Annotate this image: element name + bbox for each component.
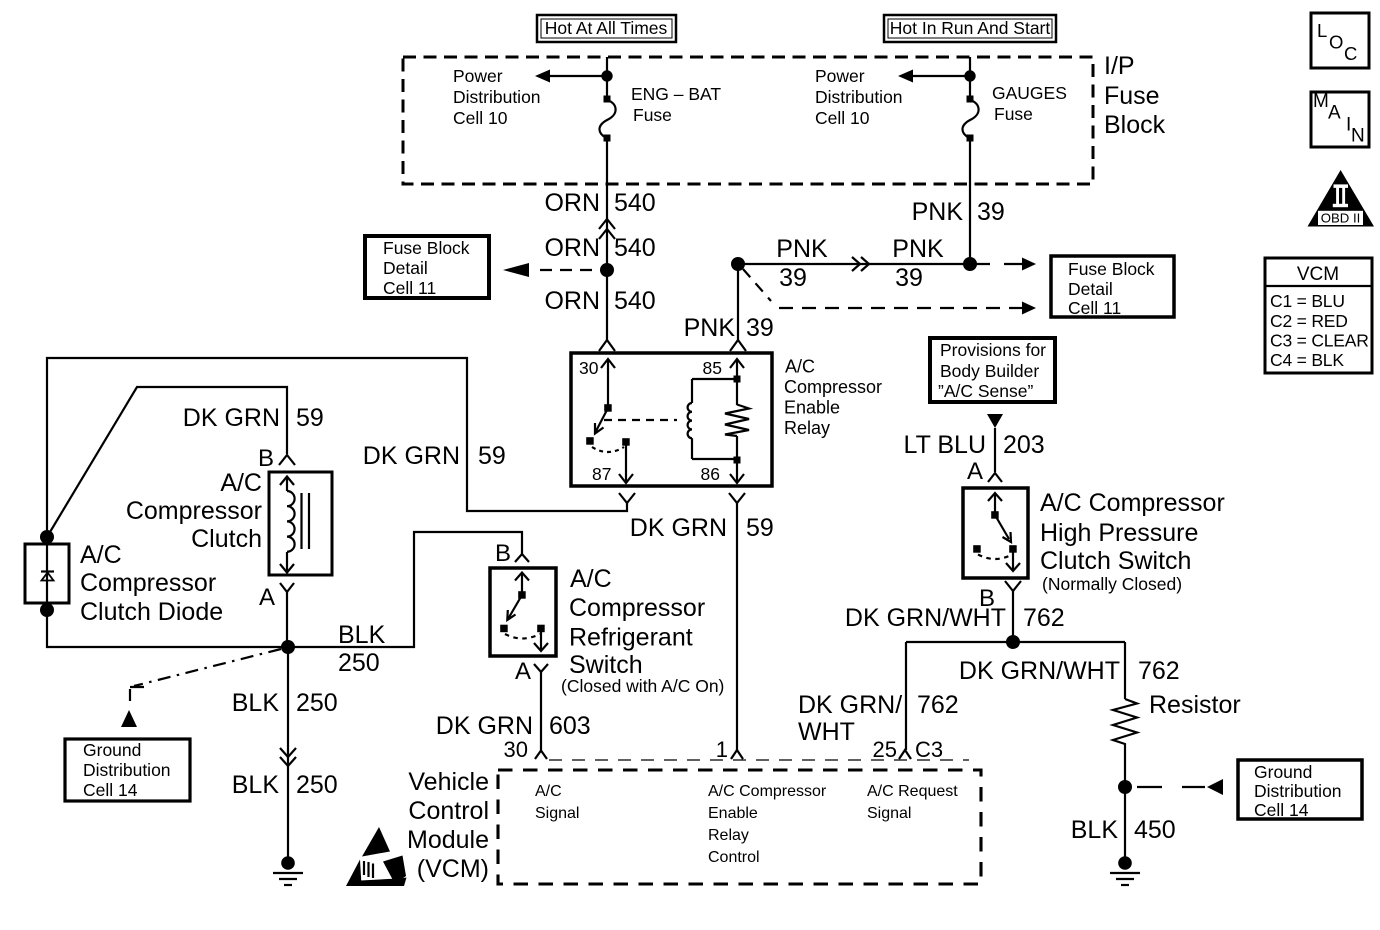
svg-text:B: B xyxy=(495,540,511,567)
svg-text:59: 59 xyxy=(296,404,324,432)
svg-text:DK GRN: DK GRN xyxy=(183,404,280,432)
svg-text:Switch: Switch xyxy=(569,651,643,679)
svg-text:Clutch: Clutch xyxy=(191,525,262,553)
svg-text:Fuse: Fuse xyxy=(633,105,672,125)
svg-text:ORN: ORN xyxy=(544,234,600,262)
svg-text:PNK: PNK xyxy=(684,314,736,342)
svg-text:Signal: Signal xyxy=(867,805,911,822)
svg-text:B: B xyxy=(258,445,274,472)
svg-text:540: 540 xyxy=(614,287,656,315)
svg-text:30: 30 xyxy=(504,737,528,762)
svg-text:DK GRN/: DK GRN/ xyxy=(798,691,902,719)
svg-text:Detail: Detail xyxy=(1068,279,1113,299)
svg-text:Signal: Signal xyxy=(535,805,579,822)
svg-text:603: 603 xyxy=(549,712,591,740)
svg-text:Relay: Relay xyxy=(784,418,830,438)
svg-text:BLK: BLK xyxy=(338,621,386,649)
svg-text:I/P: I/P xyxy=(1104,52,1135,80)
svg-text:A/C: A/C xyxy=(570,565,612,593)
svg-text:LT BLU: LT BLU xyxy=(904,431,986,459)
svg-text:BLK: BLK xyxy=(232,689,280,717)
svg-text:Relay: Relay xyxy=(708,827,749,844)
svg-text:PNK: PNK xyxy=(776,235,828,263)
svg-text:762: 762 xyxy=(917,691,959,719)
svg-text:25: 25 xyxy=(873,737,897,762)
svg-text:A: A xyxy=(1328,103,1341,124)
svg-text:Vehicle: Vehicle xyxy=(408,768,489,796)
svg-text:C3: C3 xyxy=(915,737,943,762)
svg-text:(Closed with A/C On): (Closed with A/C On) xyxy=(561,676,724,696)
svg-text:A: A xyxy=(515,658,531,685)
svg-text:Compressor: Compressor xyxy=(569,594,705,622)
svg-text:M: M xyxy=(1313,91,1329,112)
svg-text:250: 250 xyxy=(296,771,338,799)
svg-text:Distribution: Distribution xyxy=(83,760,171,780)
svg-text:ORN: ORN xyxy=(544,287,600,315)
svg-text:250: 250 xyxy=(296,689,338,717)
svg-text:GAUGES: GAUGES xyxy=(992,83,1067,103)
svg-text:(VCM): (VCM) xyxy=(417,855,489,883)
svg-text:39: 39 xyxy=(779,264,807,292)
svg-text:A/C: A/C xyxy=(785,357,815,377)
svg-text:Ground: Ground xyxy=(83,740,141,760)
svg-text:PNK: PNK xyxy=(912,198,964,226)
svg-text:Fuse: Fuse xyxy=(1104,82,1160,110)
svg-text:BLK: BLK xyxy=(1071,816,1119,844)
svg-text:Distribution: Distribution xyxy=(453,87,541,107)
svg-text:59: 59 xyxy=(746,514,774,542)
svg-text:Enable: Enable xyxy=(784,398,840,418)
svg-text:39: 39 xyxy=(895,264,923,292)
svg-text:Compressor: Compressor xyxy=(80,569,216,597)
svg-text:A: A xyxy=(259,584,275,611)
svg-text:Fuse: Fuse xyxy=(994,104,1033,124)
svg-text:85: 85 xyxy=(703,358,722,378)
svg-text:Power: Power xyxy=(453,66,503,86)
svg-text:ENG – BAT: ENG – BAT xyxy=(631,84,721,104)
svg-text:Detail: Detail xyxy=(383,258,428,278)
svg-text:Block: Block xyxy=(1104,111,1166,139)
svg-text:Compressor: Compressor xyxy=(784,377,882,397)
svg-text:”A/C Sense”: ”A/C Sense” xyxy=(938,381,1033,401)
svg-text:Ground: Ground xyxy=(1254,762,1312,782)
svg-text:Resistor: Resistor xyxy=(1149,691,1241,719)
svg-text:A/C: A/C xyxy=(80,541,122,569)
svg-text:Enable: Enable xyxy=(708,805,758,822)
svg-text:OBD II: OBD II xyxy=(1321,210,1361,225)
svg-text:86: 86 xyxy=(701,464,720,484)
svg-text:WHT: WHT xyxy=(798,718,855,746)
svg-text:A: A xyxy=(967,458,983,485)
svg-text:DK GRN/WHT: DK GRN/WHT xyxy=(959,657,1120,685)
svg-text:A/C: A/C xyxy=(220,469,262,497)
svg-text:L: L xyxy=(1317,20,1327,41)
svg-text:250: 250 xyxy=(338,649,380,677)
svg-text:Cell 10: Cell 10 xyxy=(453,108,508,128)
svg-text:Hot At All Times: Hot At All Times xyxy=(545,18,668,38)
svg-text:High Pressure: High Pressure xyxy=(1040,519,1198,547)
svg-text:C3 = CLEAR: C3 = CLEAR xyxy=(1270,331,1369,351)
svg-text:Distribution: Distribution xyxy=(1254,781,1342,801)
svg-text:Compressor: Compressor xyxy=(126,497,262,525)
svg-text:C1 = BLU: C1 = BLU xyxy=(1270,291,1345,311)
svg-text:C2 = RED: C2 = RED xyxy=(1270,311,1348,331)
svg-text:Distribution: Distribution xyxy=(815,87,903,107)
svg-text:39: 39 xyxy=(977,198,1005,226)
svg-text:Clutch Diode: Clutch Diode xyxy=(80,598,223,626)
svg-text:N: N xyxy=(1351,126,1365,147)
svg-text:Body Builder: Body Builder xyxy=(940,361,1039,381)
svg-text:762: 762 xyxy=(1023,604,1065,632)
svg-text:C4 = BLK: C4 = BLK xyxy=(1270,350,1344,370)
svg-text:A/C: A/C xyxy=(535,783,562,800)
svg-text:Cell 11: Cell 11 xyxy=(1068,298,1121,318)
svg-text:O: O xyxy=(1329,32,1343,53)
svg-text:A/C Compressor: A/C Compressor xyxy=(708,783,827,800)
svg-text:Module: Module xyxy=(407,826,489,854)
svg-text:BLK: BLK xyxy=(232,771,280,799)
svg-text:PNK: PNK xyxy=(892,235,944,263)
svg-text:540: 540 xyxy=(614,234,656,262)
svg-text:DK GRN: DK GRN xyxy=(363,442,460,470)
svg-text:Hot In Run And Start: Hot In Run And Start xyxy=(890,18,1051,38)
svg-text:ORN: ORN xyxy=(544,189,600,217)
svg-text:DK GRN: DK GRN xyxy=(436,712,533,740)
svg-text:1: 1 xyxy=(716,737,728,762)
svg-text:87: 87 xyxy=(592,464,611,484)
svg-text:Fuse Block: Fuse Block xyxy=(1068,259,1155,279)
svg-text:Power: Power xyxy=(815,66,865,86)
svg-text:30: 30 xyxy=(579,358,599,378)
svg-text:Provisions for: Provisions for xyxy=(940,340,1046,360)
svg-text:59: 59 xyxy=(478,442,506,470)
svg-text:Clutch Switch: Clutch Switch xyxy=(1040,547,1191,575)
svg-text:Control: Control xyxy=(408,797,489,825)
svg-text:Cell 11: Cell 11 xyxy=(383,278,436,298)
svg-text:A/C Request: A/C Request xyxy=(867,783,958,800)
svg-text:Refrigerant: Refrigerant xyxy=(569,624,693,652)
svg-text:C: C xyxy=(1344,43,1357,64)
svg-text:Control: Control xyxy=(708,849,760,866)
svg-text:Cell 14: Cell 14 xyxy=(83,780,138,800)
svg-text:A/C Compressor: A/C Compressor xyxy=(1040,489,1225,517)
svg-text:VCM: VCM xyxy=(1297,264,1339,285)
svg-text:Cell 10: Cell 10 xyxy=(815,108,870,128)
svg-text:450: 450 xyxy=(1134,816,1176,844)
svg-text:Fuse Block: Fuse Block xyxy=(383,238,470,258)
svg-text:39: 39 xyxy=(746,314,774,342)
svg-text:DK GRN: DK GRN xyxy=(630,514,727,542)
svg-text:DK GRN/WHT: DK GRN/WHT xyxy=(845,604,1006,632)
svg-text:762: 762 xyxy=(1138,657,1180,685)
svg-text:203: 203 xyxy=(1003,431,1045,459)
svg-text:(Normally Closed): (Normally Closed) xyxy=(1042,574,1182,594)
svg-text:Cell 14: Cell 14 xyxy=(1254,800,1309,820)
svg-text:540: 540 xyxy=(614,189,656,217)
